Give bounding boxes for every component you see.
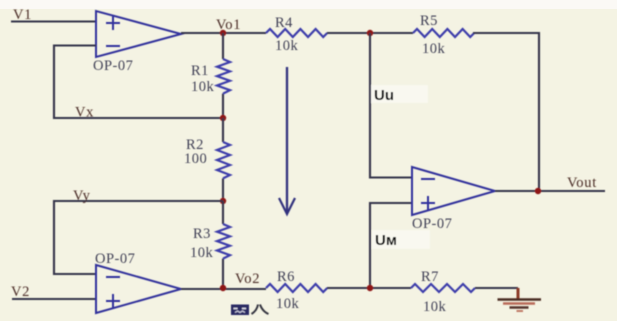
wire U3 output — [495, 190, 605, 192]
wire R6 to node — [327, 287, 411, 289]
wire V1 input — [11, 20, 96, 22]
svg-text:R6: R6 — [277, 269, 295, 285]
resistor R2 — [184, 118, 230, 201]
wire R7 to ground — [475, 287, 518, 289]
svg-text:R3: R3 — [193, 226, 211, 242]
resistor R7 — [411, 269, 475, 315]
resistor R6 — [266, 269, 327, 312]
svg-text:Vy: Vy — [73, 188, 91, 204]
svg-text:R7: R7 — [421, 269, 439, 285]
svg-text:100: 100 — [184, 151, 207, 167]
svg-text:R5: R5 — [420, 13, 438, 29]
svg-text:R1: R1 — [191, 63, 209, 79]
wire Vy feedback to U2 — [54, 201, 223, 274]
wire R5 to U3 output node — [473, 33, 539, 191]
svg-text:R4: R4 — [275, 15, 293, 31]
ground — [498, 288, 542, 311]
svg-text:10k: 10k — [275, 38, 299, 54]
svg-text:10k: 10k — [423, 299, 447, 315]
svg-text:Vx: Vx — [75, 105, 94, 121]
op-amp U2 — [95, 251, 181, 313]
op-amp U3 — [412, 167, 495, 232]
svg-text:Vo2: Vo2 — [235, 271, 260, 287]
svg-text:Uu: Uu — [374, 87, 394, 104]
node Vy — [220, 198, 226, 204]
node Vo2 — [220, 285, 226, 291]
label Uu highlight — [371, 85, 428, 103]
resistor R3 — [190, 201, 230, 288]
wire U3 non-inverting input branch — [370, 203, 412, 288]
wire U1 output to Vo1 — [181, 32, 266, 34]
resistor R5 — [413, 13, 474, 57]
svg-text:Uм: Uм — [375, 232, 397, 249]
node U3 output — [535, 188, 541, 194]
node bottom junction — [367, 285, 373, 291]
svg-text:OP-07: OP-07 — [93, 58, 133, 74]
op-amp U1 — [93, 11, 181, 74]
wire V2 input — [12, 298, 96, 300]
svg-text:V2: V2 — [11, 284, 30, 300]
label Um highlight — [372, 230, 430, 249]
wire U1 feedback to Vx — [54, 46, 224, 119]
svg-text:Vout: Vout — [567, 175, 597, 191]
node between R4 and R5 — [367, 30, 373, 36]
resistor R4 — [266, 15, 327, 54]
svg-text:OP-07: OP-07 — [412, 216, 452, 232]
svg-text:OP-07: OP-07 — [95, 251, 135, 267]
svg-text:Vo1: Vo1 — [216, 17, 241, 33]
current arrow — [279, 67, 295, 214]
resistor R1 — [191, 33, 230, 118]
svg-text:10k: 10k — [276, 296, 300, 312]
wire U2 output to Vo2 — [181, 288, 266, 290]
svg-text:10k: 10k — [191, 79, 215, 95]
wire R4 to node — [327, 32, 413, 34]
node Vx — [220, 115, 226, 121]
svg-text:10k: 10k — [422, 41, 446, 57]
figure caption 圖八 — [231, 305, 269, 316]
node Vo1 — [220, 30, 226, 36]
svg-text:10k: 10k — [190, 245, 214, 261]
wire node down to U3 inverting input — [370, 33, 412, 178]
svg-text:V1: V1 — [13, 7, 32, 23]
